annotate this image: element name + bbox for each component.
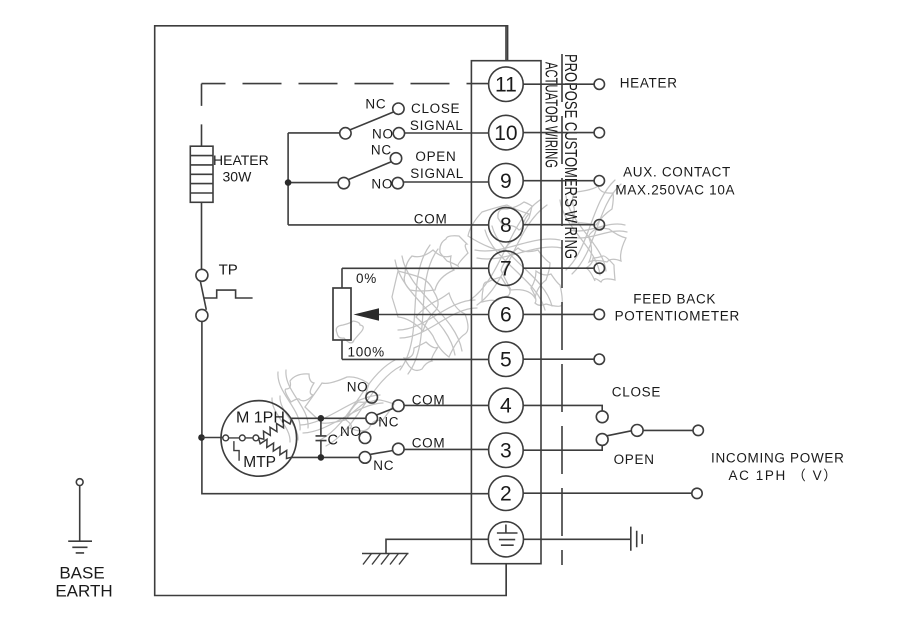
svg-text:M 1PH: M 1PH (236, 410, 285, 427)
svg-text:11: 11 (495, 74, 517, 97)
svg-text:2: 2 (500, 483, 512, 506)
svg-text:ACTUATOR WIRING: ACTUATOR WIRING (542, 62, 562, 168)
svg-text:0%: 0% (356, 271, 377, 286)
svg-text:BASE: BASE (59, 564, 104, 583)
svg-text:4: 4 (500, 395, 512, 418)
svg-text:MTP: MTP (243, 454, 276, 471)
svg-text:CLOSE: CLOSE (411, 101, 460, 116)
svg-text:COM: COM (414, 211, 448, 226)
svg-text:5: 5 (500, 349, 512, 372)
svg-text:SIGNAL: SIGNAL (410, 166, 464, 181)
svg-text:MAX.250VAC 10A: MAX.250VAC 10A (615, 183, 735, 198)
svg-text:10: 10 (494, 122, 517, 145)
svg-text:C: C (328, 432, 338, 448)
svg-text:NO: NO (371, 176, 393, 191)
svg-text:EARTH: EARTH (55, 581, 112, 600)
svg-text:8: 8 (500, 214, 512, 237)
svg-text:3: 3 (500, 440, 512, 463)
svg-text:NO: NO (372, 126, 394, 141)
svg-text:NC: NC (365, 97, 386, 112)
svg-text:FEED BACK: FEED BACK (633, 292, 716, 307)
svg-text:POTENTIOMETER: POTENTIOMETER (615, 309, 740, 324)
svg-text:NC: NC (373, 458, 394, 473)
svg-text:AC 1PH （ V）: AC 1PH （ V） (729, 468, 839, 483)
svg-text:OPEN: OPEN (614, 452, 655, 467)
svg-text:NC: NC (378, 415, 399, 430)
svg-text:30W: 30W (223, 169, 253, 185)
svg-text:OPEN: OPEN (415, 149, 456, 164)
svg-text:NC: NC (371, 143, 392, 158)
svg-text:TP: TP (219, 261, 238, 278)
svg-text:7: 7 (500, 258, 512, 281)
svg-text:HEATER: HEATER (620, 76, 678, 91)
svg-text:COM: COM (412, 436, 446, 451)
svg-text:6: 6 (500, 304, 512, 327)
svg-text:100%: 100% (348, 345, 385, 360)
svg-text:HEATER: HEATER (213, 152, 269, 168)
svg-text:CLOSE: CLOSE (612, 385, 661, 400)
svg-text:AUX. CONTACT: AUX. CONTACT (623, 165, 731, 180)
svg-text:COM: COM (412, 392, 446, 407)
svg-text:NO: NO (347, 380, 369, 395)
svg-text:INCOMING POWER: INCOMING POWER (711, 450, 845, 465)
svg-text:NO: NO (340, 424, 362, 439)
svg-text:SIGNAL: SIGNAL (410, 118, 464, 133)
svg-text:9: 9 (500, 170, 512, 193)
